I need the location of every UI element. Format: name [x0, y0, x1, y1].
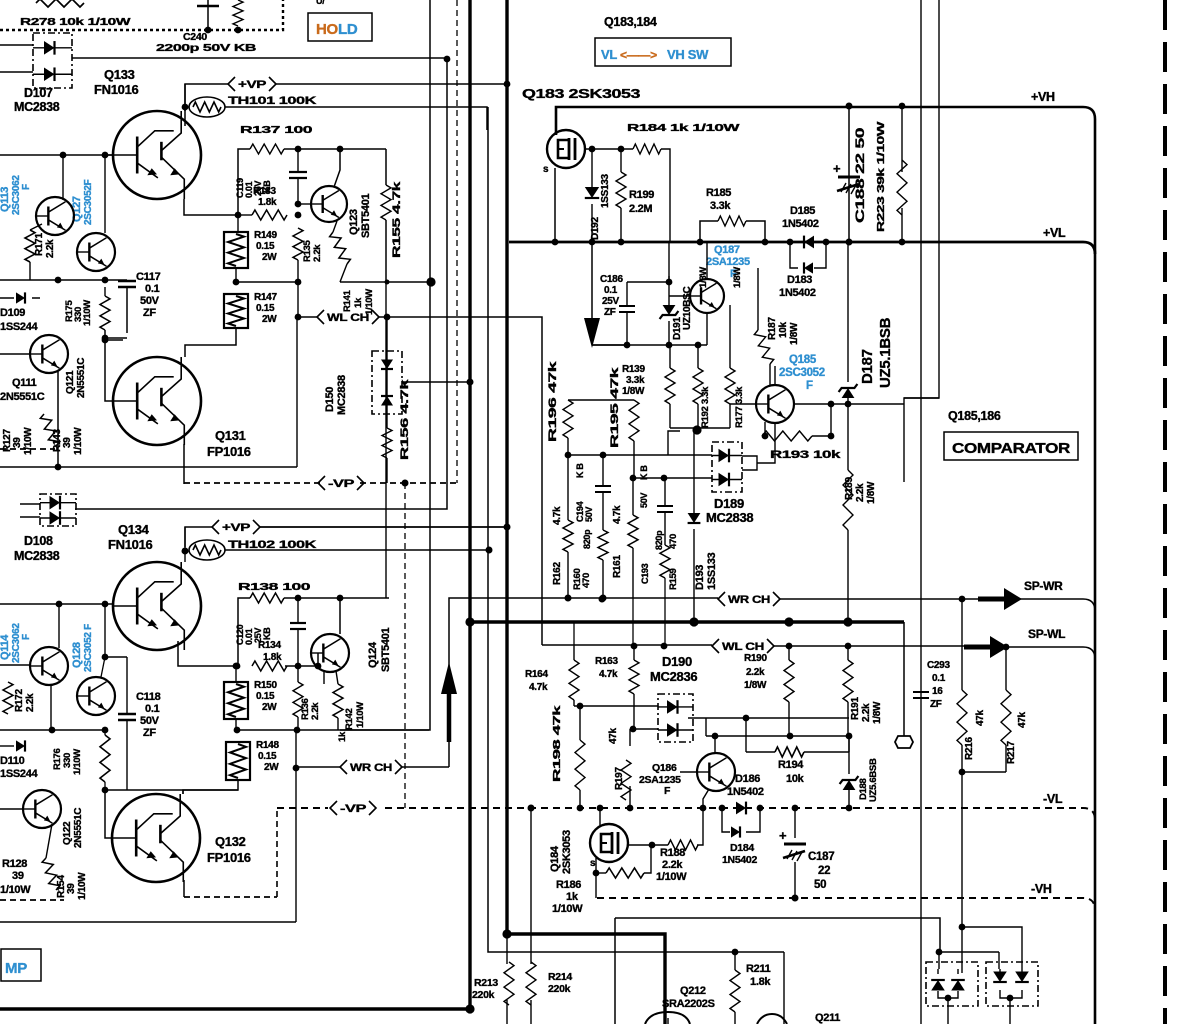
wire y730 — [236, 729, 429, 731]
wire Q132 emitter — [184, 880, 277, 897]
junction w1 — [0, 0, 1, 1]
wire R149 wires — [236, 215, 238, 282]
svg-text:UZ5.6BSB: UZ5.6BSB — [868, 758, 879, 802]
wire R187 — [758, 268, 770, 385]
svg-text:1k: 1k — [566, 891, 579, 903]
junction r2 — [600, 452, 607, 459]
wire bus H (x921) — [920, 0, 922, 1024]
wire D191 to VL — [668, 242, 670, 282]
junction aa4 — [792, 895, 799, 902]
junction Q134 coll — [182, 548, 189, 555]
connector symbol x904 — [895, 712, 913, 748]
svg-text:D185: D185 — [790, 205, 815, 217]
svg-text:R141: R141 — [342, 289, 353, 312]
junction b1 — [55, 277, 62, 284]
junction r4 — [661, 475, 668, 482]
svg-text:R278 10k 1/10W: R278 10k 1/10W — [20, 16, 131, 28]
node +VP upper — [228, 77, 276, 91]
wire Q132 coll — [182, 790, 184, 794]
svg-text:COMPARATOR: COMPARATOR — [952, 440, 1071, 457]
svg-text:R142: R142 — [344, 708, 355, 730]
wire WRCH right a — [566, 597, 718, 599]
wire R160 down — [602, 560, 604, 598]
junction v2 — [661, 643, 668, 650]
junction R175 bot — [102, 337, 109, 344]
svg-text:470: 470 — [581, 573, 592, 588]
wire x296 drop — [295, 730, 297, 922]
label D193 — [694, 552, 718, 590]
mosfet Q184 — [590, 824, 628, 862]
svg-text:1/10W: 1/10W — [656, 871, 687, 883]
junction r1 — [565, 452, 572, 459]
label D183 type — [779, 287, 816, 299]
label D109 — [0, 307, 25, 319]
wire R148 bottom — [183, 780, 238, 794]
wire R192 wires — [697, 345, 699, 428]
transistor Q211 partial — [757, 1014, 787, 1024]
svg-text:1/8W: 1/8W — [698, 267, 709, 288]
svg-text:2SC3052 F: 2SC3052 F — [83, 624, 94, 672]
svg-text:D193: D193 — [694, 565, 706, 590]
svg-text:1/10W: 1/10W — [0, 884, 31, 896]
svg-text:0.1: 0.1 — [604, 285, 618, 296]
junction i1 — [337, 595, 344, 602]
label R160 — [572, 568, 592, 590]
svg-text:2.2k: 2.2k — [746, 667, 765, 678]
label box HOLD — [308, 13, 372, 41]
capacitor C187 ecap — [779, 828, 806, 861]
wire +VL rail — [509, 242, 1095, 254]
svg-text:R133: R133 — [253, 186, 276, 197]
node -VH label — [1031, 882, 1052, 896]
wire C117 link — [105, 339, 123, 341]
label R156 — [399, 378, 411, 460]
wire C186 top — [627, 276, 669, 282]
capacitor C120 — [290, 595, 306, 666]
svg-text:R195 47k: R195 47k — [609, 366, 621, 448]
label Q127 type — [71, 179, 94, 225]
svg-text:D108: D108 — [24, 534, 53, 548]
svg-text:1/8W: 1/8W — [789, 322, 800, 345]
junction u3 — [784, 617, 793, 626]
wire D184 loop — [722, 808, 760, 832]
svg-text:1/10W: 1/10W — [77, 872, 88, 900]
wire Q184 source — [628, 844, 668, 846]
svg-text:1/8W: 1/8W — [872, 701, 883, 724]
resistor R159 — [660, 545, 670, 578]
label Q132 — [215, 834, 246, 849]
junction SP-WR — [959, 596, 966, 603]
svg-text:WL CH: WL CH — [722, 641, 764, 653]
label D108 type — [14, 549, 60, 563]
junction v1 — [631, 643, 638, 650]
svg-text:K B: K B — [575, 463, 585, 478]
resistor R216 — [957, 690, 967, 745]
wire R134 link — [285, 663, 318, 670]
wire thick SP-W line — [470, 620, 904, 624]
capacitor C240 — [197, 0, 219, 30]
wire R139 wires — [669, 345, 671, 428]
wire SP drop x904 — [903, 622, 905, 712]
junction q3 — [828, 433, 835, 440]
dual diode D107 — [33, 33, 72, 88]
wire Q185 base — [730, 403, 756, 405]
label C194 — [575, 463, 594, 549]
svg-text:FP1016: FP1016 — [207, 444, 251, 459]
capacitor C194 — [595, 455, 611, 530]
wire R214 wires — [530, 808, 532, 1024]
svg-text:+VL: +VL — [1043, 226, 1066, 240]
wire to box2b — [998, 952, 1000, 969]
junction q1 — [828, 401, 835, 408]
junction j1 — [234, 727, 241, 734]
wire Q133 emitter — [184, 199, 236, 215]
wire R216 R217 bottoms — [962, 647, 1006, 772]
resistor R223 — [897, 160, 907, 215]
resistor R176 — [100, 730, 110, 790]
junction x3 — [846, 733, 853, 740]
svg-text:+VH: +VH — [1031, 90, 1055, 104]
wire R213 wires — [506, 934, 508, 1024]
svg-text:47k: 47k — [1017, 711, 1028, 728]
wire R198 wires — [577, 703, 584, 808]
svg-text:0.15: 0.15 — [256, 691, 275, 702]
wire bus E (x489) — [488, 107, 784, 952]
wire R184 right — [661, 149, 670, 242]
wire y790 — [105, 789, 238, 791]
svg-text:2SA1235: 2SA1235 — [639, 774, 681, 786]
svg-text:R198 47k: R198 47k — [552, 705, 563, 782]
junction l3 — [552, 239, 559, 246]
resistor R139 — [665, 368, 675, 404]
junction n1 — [697, 239, 704, 246]
junction TH102 out — [486, 547, 493, 554]
resistor R189 — [843, 470, 853, 530]
svg-text:0.1: 0.1 — [932, 673, 946, 684]
wire y952 right — [939, 951, 999, 953]
svg-text:1SS133: 1SS133 — [706, 552, 718, 590]
svg-text:220k: 220k — [548, 983, 571, 995]
capacitor C193 — [657, 478, 673, 545]
label C188 — [853, 127, 867, 223]
label Q183 — [522, 87, 640, 101]
junction k1 — [102, 787, 109, 794]
wire Q183 drain — [585, 148, 633, 150]
label Q184 — [549, 830, 573, 874]
svg-text:R155 4.7k: R155 4.7k — [391, 180, 403, 258]
wire to C186 node — [592, 344, 627, 346]
junction g2 — [102, 601, 109, 608]
wire R177 wires — [729, 305, 731, 428]
svg-text:D186: D186 — [735, 773, 760, 785]
label R135 — [302, 239, 323, 262]
svg-text:R172: R172 — [14, 689, 25, 712]
zener D191 — [660, 305, 679, 319]
svg-text:D109: D109 — [0, 307, 25, 319]
label R138 — [238, 581, 311, 593]
junction m4 — [899, 239, 906, 246]
svg-text:4.7k: 4.7k — [552, 506, 563, 525]
svg-text:Q122: Q122 — [62, 821, 73, 845]
label R190 — [744, 653, 767, 691]
wire WRCH left line — [296, 766, 449, 768]
resistor R195 — [629, 400, 639, 441]
wire C117 bottom — [102, 335, 127, 342]
resistor R217 — [1001, 690, 1011, 745]
capacitor C117 — [118, 281, 136, 333]
svg-text:D184: D184 — [730, 842, 754, 854]
svg-text:D110: D110 — [0, 755, 25, 767]
junction a2 — [102, 152, 109, 159]
transistor Q131 — [113, 357, 201, 445]
resistor R154 diag — [42, 858, 60, 890]
wire C188 col — [848, 106, 850, 242]
label Q212 type — [662, 998, 715, 1010]
junction e2 — [295, 279, 302, 286]
svg-text:R163: R163 — [595, 656, 618, 667]
label R196 — [547, 360, 559, 442]
wire Q131 emitter — [183, 444, 185, 484]
svg-text:MC2838: MC2838 — [14, 549, 60, 563]
wire R193 loop — [762, 404, 831, 436]
resistor R214 — [526, 962, 536, 1005]
transistor Q124 — [311, 634, 349, 672]
junction m1 — [846, 103, 853, 110]
wire bus C dashed (x457) — [456, 0, 458, 483]
svg-text:Q187: Q187 — [714, 244, 740, 256]
arrow SP-WR — [978, 588, 1022, 610]
svg-text:1N5402: 1N5402 — [782, 218, 819, 230]
svg-text:HO: HO — [316, 21, 339, 38]
svg-text:R134: R134 — [258, 640, 281, 651]
arrow signal up (x449) — [441, 662, 457, 742]
label Q113 type — [0, 175, 32, 215]
capacitor C293 — [913, 692, 929, 698]
label C186 — [600, 274, 623, 318]
svg-text:10k: 10k — [778, 321, 789, 338]
svg-text:TH102 100K: TH102 100K — [228, 539, 317, 551]
svg-text:+VP: +VP — [238, 79, 266, 91]
label D110 type — [0, 768, 39, 780]
wire y918 — [615, 918, 940, 952]
wire loop 668 — [668, 431, 680, 455]
node WR CH left — [340, 760, 402, 774]
svg-text:R190: R190 — [744, 653, 767, 664]
wire Q121 base — [0, 353, 30, 355]
wire -VP dash upper left — [184, 482, 322, 484]
svg-text:UZ5.1BSB: UZ5.1BSB — [877, 317, 894, 388]
svg-text:16: 16 — [932, 686, 943, 697]
resistor R175 — [100, 296, 110, 330]
wire Q134 base — [0, 603, 113, 605]
resistor R190 — [784, 660, 794, 702]
label R198 — [552, 705, 563, 782]
svg-text:SP-WL: SP-WL — [1028, 627, 1065, 641]
junction TH101 — [182, 104, 189, 111]
wire bus B lower with WR CH feed — [449, 598, 566, 767]
svg-text:SP-WR: SP-WR — [1024, 579, 1063, 593]
wire D107 output — [72, 56, 450, 63]
node WL CH left — [317, 310, 379, 324]
svg-text:1k: 1k — [337, 731, 348, 742]
svg-text:1N5402: 1N5402 — [722, 854, 757, 866]
wire y706 — [574, 622, 658, 706]
svg-text:s: s — [543, 164, 549, 175]
svg-text:1/10W: 1/10W — [23, 427, 34, 455]
junction +VP lower — [504, 524, 511, 531]
wire R194 wires — [746, 718, 849, 752]
wire R138 wires — [238, 598, 340, 666]
svg-text:2W: 2W — [262, 252, 277, 263]
wire D192 — [591, 149, 593, 242]
label R134 — [258, 640, 282, 663]
svg-text:1/10W: 1/10W — [72, 749, 83, 775]
label R154 — [56, 872, 88, 900]
label Q131 type — [207, 444, 251, 459]
svg-text:2SC3062: 2SC3062 — [11, 175, 22, 215]
junction y282 busA — [385, 277, 436, 286]
arrow signal down (x592) — [584, 318, 600, 348]
wire D150 mid tap — [402, 381, 470, 383]
svg-text:+VP: +VP — [222, 522, 250, 534]
label R214 — [548, 971, 572, 995]
wire R195 wires — [633, 441, 635, 478]
label Q133 type — [94, 82, 139, 97]
label R172 — [14, 689, 36, 712]
resistor R143 — [40, 414, 59, 446]
label R217 — [1006, 711, 1028, 764]
resistor R177 — [725, 368, 735, 404]
wire y280 — [0, 279, 127, 281]
label Q186 — [652, 762, 677, 774]
svg-text:R156 4.7k: R156 4.7k — [399, 378, 411, 460]
transistor Q113 — [36, 197, 74, 235]
junction c1 — [295, 146, 302, 153]
wire q212 stub — [667, 1018, 669, 1024]
svg-text:R196 47k: R196 47k — [547, 360, 559, 442]
wire pack2 down — [1009, 998, 1011, 1024]
svg-text:2N5551C: 2N5551C — [76, 358, 87, 398]
svg-text:2SA1235: 2SA1235 — [706, 256, 750, 268]
svg-text:2.2k: 2.2k — [312, 244, 323, 262]
svg-text:SBT5401: SBT5401 — [360, 193, 372, 238]
svg-text:D190: D190 — [662, 654, 692, 669]
wire x615 drop — [614, 918, 616, 1024]
junction WLCH — [295, 314, 302, 321]
svg-text:R194: R194 — [778, 759, 804, 771]
svg-text:+: + — [833, 161, 841, 176]
wire +VP lower — [260, 526, 507, 528]
resistor R142 — [333, 684, 343, 718]
svg-text:Q123: Q123 — [348, 209, 360, 235]
wire bus I (x939) — [904, 0, 939, 398]
label Q187 — [714, 244, 740, 256]
svg-text:D107: D107 — [24, 86, 53, 100]
wire Q114 wires — [0, 604, 59, 730]
svg-text:Q186: Q186 — [652, 762, 677, 774]
wire D189 tap — [757, 436, 775, 463]
svg-text:39: 39 — [12, 870, 24, 882]
svg-text:39: 39 — [62, 437, 73, 448]
label R199 — [629, 189, 654, 215]
label R142 — [337, 702, 366, 742]
wire R133 left — [238, 214, 252, 216]
junction n3 — [787, 239, 794, 246]
svg-text:Q184: Q184 — [549, 845, 561, 872]
svg-text:ZF: ZF — [143, 307, 156, 319]
svg-text:1/8W: 1/8W — [744, 680, 767, 691]
wire WLCH right a — [542, 644, 712, 646]
wire R159 down — [664, 578, 666, 646]
label D109 type — [0, 321, 39, 333]
svg-text:<——>: <——> — [620, 48, 657, 62]
label C118 — [136, 691, 161, 739]
junction bb3 — [959, 769, 966, 776]
label R162 — [552, 506, 563, 585]
svg-text:MC2838: MC2838 — [336, 375, 348, 415]
junction D150 tap — [467, 379, 474, 386]
label R184 — [627, 122, 740, 134]
svg-text:50V: 50V — [639, 493, 649, 508]
label C240 value — [156, 42, 257, 54]
wire bus G dashed -VP drop (x405) — [404, 483, 406, 808]
svg-text:Q124: Q124 — [367, 641, 379, 668]
label R161 — [612, 505, 623, 578]
svg-text:R186: R186 — [556, 879, 581, 891]
label Q128 type — [71, 624, 94, 672]
svg-text:MC2838: MC2838 — [14, 100, 60, 114]
label R163 — [595, 656, 618, 680]
junction m2 — [846, 239, 853, 246]
wire bus B upper (x447) — [75, 59, 447, 509]
label Q122 — [62, 808, 84, 848]
svg-text:2.2k: 2.2k — [861, 703, 872, 722]
junction w4 — [845, 643, 852, 650]
resistor R198 — [575, 740, 585, 790]
label C117 — [136, 271, 161, 319]
svg-text:R148: R148 — [256, 740, 279, 751]
resistor R191 — [843, 660, 853, 702]
label R192 — [698, 267, 711, 428]
svg-text:Q185,186: Q185,186 — [948, 409, 1001, 423]
label D190 — [662, 654, 692, 669]
wire Q113 coll — [62, 155, 64, 200]
wire R188 right — [697, 805, 706, 845]
svg-text:2.2k: 2.2k — [310, 702, 321, 720]
label R188 — [656, 847, 687, 883]
svg-text:0.15: 0.15 — [258, 751, 277, 762]
wire y736 — [706, 718, 849, 736]
wire to box2 — [962, 927, 1022, 969]
wire D188 wires — [848, 736, 850, 808]
label R193 — [770, 449, 842, 461]
junction e1 — [233, 279, 240, 286]
diode D110 — [0, 740, 25, 751]
wire +VP lower leftleg — [185, 527, 212, 547]
junction aa1 — [719, 805, 726, 812]
svg-text:R216: R216 — [964, 737, 975, 760]
resistor R185 — [718, 216, 746, 226]
svg-text:1/10W: 1/10W — [552, 903, 583, 915]
label R139 — [622, 364, 645, 397]
wire Q187 base — [669, 295, 690, 297]
label Q114 type — [0, 623, 32, 663]
junction TH102 — [182, 548, 189, 555]
zener D187 — [839, 384, 858, 398]
label s Q183 — [543, 164, 549, 175]
node -VP upper — [318, 475, 364, 491]
svg-text:2.2k: 2.2k — [45, 239, 56, 258]
